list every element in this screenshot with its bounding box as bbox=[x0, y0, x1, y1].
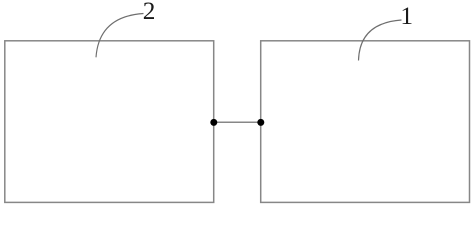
block 1 (right box) bbox=[261, 41, 470, 203]
leader line 1 bbox=[359, 20, 402, 61]
block 2 (left box) bbox=[5, 41, 214, 203]
wire bbox=[214, 121, 261, 123]
leader line 2 bbox=[96, 14, 144, 58]
junction dot right bbox=[257, 119, 264, 126]
svg-text:2: 2 bbox=[143, 0, 156, 25]
junction dot left bbox=[210, 119, 217, 126]
svg-text:1: 1 bbox=[400, 2, 413, 30]
